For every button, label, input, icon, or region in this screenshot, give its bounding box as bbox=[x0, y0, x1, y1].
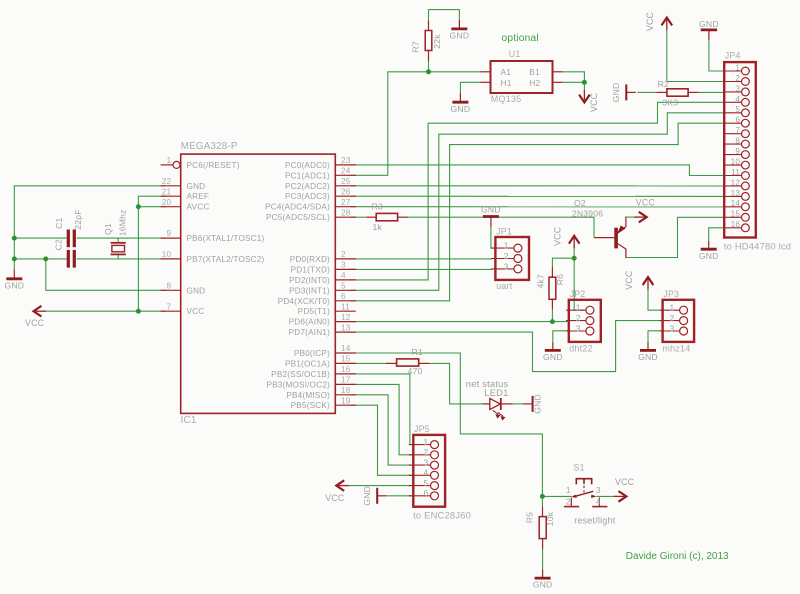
svg-text:23: 23 bbox=[341, 156, 351, 165]
svg-text:R3: R3 bbox=[372, 202, 383, 212]
svg-text:AREF: AREF bbox=[187, 192, 210, 201]
svg-text:PB2(SS/OC1B): PB2(SS/OC1B) bbox=[271, 370, 330, 379]
resistor R7 22k bbox=[411, 20, 443, 60]
wire JP3 pin 3 to GND bbox=[648, 331, 664, 343]
svg-text:mhz14: mhz14 bbox=[662, 344, 690, 354]
svg-text:PD5(T1): PD5(T1) bbox=[298, 307, 330, 316]
svg-text:PB4(MISO): PB4(MISO) bbox=[286, 391, 330, 400]
svg-text:GND: GND bbox=[4, 280, 24, 290]
svg-text:17: 17 bbox=[341, 376, 351, 385]
supply VCC left of JP5 pin5 bbox=[325, 480, 349, 503]
svg-text:PB0(ICP): PB0(ICP) bbox=[294, 349, 330, 358]
svg-text:MQ135: MQ135 bbox=[491, 94, 522, 104]
svg-text:to HD44780 lcd: to HD44780 lcd bbox=[724, 241, 791, 252]
ground below U1 H1 bbox=[459, 93, 461, 102]
svg-text:GND: GND bbox=[699, 251, 719, 261]
svg-text:VCC: VCC bbox=[552, 226, 562, 246]
svg-text:4k7: 4k7 bbox=[535, 274, 545, 288]
svg-text:Q1: Q1 bbox=[103, 223, 113, 235]
svg-text:3: 3 bbox=[596, 486, 601, 495]
svg-text:1: 1 bbox=[423, 437, 428, 447]
wire PD6 to JP2 pin 2 (dht22 data) bbox=[351, 321, 568, 323]
svg-text:10: 10 bbox=[162, 250, 172, 259]
wire PB2 to JP5 pin 1 bbox=[351, 374, 412, 445]
svg-text:10: 10 bbox=[731, 158, 741, 167]
svg-text:VCC: VCC bbox=[187, 307, 205, 316]
svg-text:13: 13 bbox=[731, 189, 741, 198]
svg-text:PD7(AIN1): PD7(AIN1) bbox=[289, 328, 330, 337]
wire R5 top stub bbox=[541, 496, 543, 506]
switch S1 reset/light bbox=[564, 462, 616, 525]
supply VCC above JP3 bbox=[624, 270, 653, 290]
svg-text:15: 15 bbox=[341, 355, 351, 364]
ground left of R2 (rotated) bbox=[625, 84, 627, 100]
svg-text:GND: GND bbox=[450, 31, 470, 41]
ic U1 MQ135 bbox=[480, 49, 562, 104]
svg-text:PD4(XCK/T0): PD4(XCK/T0) bbox=[278, 297, 330, 306]
wire R6 top to VCC node bbox=[552, 258, 574, 267]
supply VCC right of S1 bbox=[614, 477, 635, 502]
svg-text:2: 2 bbox=[566, 498, 571, 507]
svg-text:2: 2 bbox=[669, 313, 674, 323]
wire S1 to R5/PB0 node bbox=[542, 495, 571, 497]
svg-text:PD2(INT0): PD2(INT0) bbox=[289, 276, 330, 285]
svg-text:24: 24 bbox=[341, 167, 351, 176]
resistor R1 470 bbox=[386, 347, 429, 376]
svg-text:VCC: VCC bbox=[636, 198, 656, 208]
svg-text:22pF: 22pF bbox=[73, 209, 83, 229]
svg-text:GND: GND bbox=[699, 19, 719, 29]
wire crystal taps bbox=[117, 238, 119, 243]
svg-text:7: 7 bbox=[167, 302, 172, 311]
svg-text:JP5: JP5 bbox=[414, 424, 430, 434]
wire R7 top to GND bbox=[429, 10, 460, 21]
svg-text:26: 26 bbox=[341, 187, 351, 196]
wire JP1 pin 1 to GND bbox=[491, 227, 492, 248]
svg-text:MEGA328-P: MEGA328-P bbox=[181, 141, 238, 152]
wire GND to JP4 pin 1 bbox=[709, 40, 724, 71]
wire PB4 to JP5 pin 3 bbox=[351, 395, 412, 465]
supply VCC right of Q2 emitter bbox=[634, 198, 655, 223]
svg-text:GND: GND bbox=[543, 352, 563, 362]
wire R7 bottom stub net bbox=[428, 61, 430, 72]
junction VCC row7 bbox=[136, 309, 141, 314]
ground below R5 bbox=[542, 570, 544, 578]
wire PB1 to R1 bbox=[351, 362, 386, 364]
svg-text:1: 1 bbox=[735, 63, 740, 72]
junction PB0/S1/R5 bbox=[540, 494, 545, 499]
svg-text:1k: 1k bbox=[373, 222, 383, 232]
wire Q2 collector to JP4 pin 15 bbox=[626, 217, 724, 257]
svg-text:GND: GND bbox=[481, 204, 501, 214]
wire PD0 to JP1 pin 2 bbox=[351, 258, 492, 260]
svg-text:12: 12 bbox=[341, 313, 351, 322]
svg-text:7: 7 bbox=[735, 126, 740, 135]
svg-text:470: 470 bbox=[408, 366, 423, 376]
connector JP4 to HD44780 lcd bbox=[724, 50, 791, 251]
svg-text:VCC: VCC bbox=[25, 318, 45, 328]
wire S1 pin 3 to VCC bbox=[596, 495, 617, 497]
svg-text:2: 2 bbox=[735, 74, 740, 83]
svg-text:2: 2 bbox=[576, 313, 581, 323]
svg-text:6: 6 bbox=[423, 488, 428, 498]
ground left rail bbox=[13, 270, 15, 279]
svg-text:uart: uart bbox=[496, 281, 513, 291]
svg-text:PB7(XTAL2/TOSC2): PB7(XTAL2/TOSC2) bbox=[187, 255, 265, 264]
svg-text:GND: GND bbox=[362, 486, 372, 506]
svg-text:A1: A1 bbox=[501, 67, 512, 77]
capacitor C1 22pF bbox=[54, 209, 83, 247]
svg-text:R7: R7 bbox=[411, 41, 421, 52]
svg-text:PB5(SCK): PB5(SCK) bbox=[291, 401, 330, 410]
wire GND symbol stub left bbox=[13, 259, 15, 270]
svg-text:8: 8 bbox=[167, 282, 172, 291]
svg-text:19: 19 bbox=[341, 396, 351, 405]
svg-text:PC6(/RESET): PC6(/RESET) bbox=[187, 161, 240, 170]
svg-text:GND: GND bbox=[532, 394, 542, 414]
wire PC4 to JP4 pin 14 bbox=[351, 206, 724, 208]
svg-text:PC3(ADC3): PC3(ADC3) bbox=[285, 192, 330, 201]
wire PD3 to JP4 pin 5 bbox=[351, 113, 724, 290]
junction GND rail row9 bbox=[12, 236, 17, 241]
svg-text:dht22: dht22 bbox=[569, 344, 593, 354]
ground below JP4 pin16 bbox=[708, 241, 710, 249]
wire U1-B1/H2 to VCC bbox=[563, 72, 585, 83]
svg-text:R6: R6 bbox=[555, 274, 565, 285]
svg-text:VCC: VCC bbox=[624, 270, 634, 290]
svg-text:4: 4 bbox=[735, 95, 740, 104]
svg-text:reset/light: reset/light bbox=[574, 516, 616, 526]
junction R6 top VCC bbox=[572, 256, 577, 261]
wire LED1 cathode to GND bbox=[512, 403, 524, 405]
svg-text:2N3906: 2N3906 bbox=[572, 208, 603, 218]
ground below JP3 pin3 bbox=[647, 342, 649, 350]
svg-text:3: 3 bbox=[669, 323, 674, 333]
wire VCC to JP3 pin 1 bbox=[648, 289, 664, 310]
svg-text:16: 16 bbox=[341, 365, 351, 374]
junction R7/A1 bbox=[426, 69, 431, 74]
wire PD1 to JP1 pin 3 bbox=[351, 268, 492, 270]
svg-text:3: 3 bbox=[341, 261, 346, 270]
svg-text:15: 15 bbox=[731, 210, 741, 219]
wire JP4 pin 16 to GND bbox=[709, 228, 725, 241]
supply VCC arrow top (JP4 pin2) bbox=[645, 11, 672, 31]
junction pin8 GND bbox=[43, 256, 48, 261]
svg-text:GND: GND bbox=[187, 286, 206, 295]
svg-text:27: 27 bbox=[341, 198, 351, 207]
resistor R5 10k bbox=[525, 507, 555, 549]
svg-text:U1: U1 bbox=[509, 49, 521, 59]
wire pin8 GND to rail bbox=[46, 259, 166, 290]
svg-text:11: 11 bbox=[341, 302, 350, 311]
wire PB5 to JP5 pin 4 bbox=[351, 405, 412, 475]
svg-text:GND: GND bbox=[451, 104, 471, 114]
svg-text:18: 18 bbox=[341, 386, 351, 395]
svg-text:5: 5 bbox=[735, 105, 740, 114]
svg-text:2: 2 bbox=[341, 250, 346, 259]
svg-text:R5: R5 bbox=[525, 512, 535, 523]
connector JP3 mhz14 bbox=[660, 289, 694, 354]
svg-text:PD0(RXD): PD0(RXD) bbox=[290, 255, 330, 264]
svg-text:1: 1 bbox=[576, 303, 581, 313]
ground above JP1 pin1 (inverted) bbox=[490, 217, 492, 228]
svg-text:8: 8 bbox=[735, 137, 740, 146]
supply VCC above JP2 bbox=[552, 226, 579, 248]
svg-text:14: 14 bbox=[731, 199, 741, 208]
ground above R7 bbox=[458, 20, 460, 29]
wire R5 bottom to GND bbox=[542, 549, 544, 570]
wire PD4 to JP4 pin 6 bbox=[351, 123, 724, 301]
svg-text:LED1: LED1 bbox=[484, 387, 508, 398]
svg-text:9: 9 bbox=[167, 229, 172, 238]
svg-text:JP3: JP3 bbox=[663, 289, 679, 299]
svg-text:PC5(ADC5/SCL): PC5(ADC5/SCL) bbox=[266, 213, 330, 222]
svg-text:B1: B1 bbox=[529, 67, 540, 77]
wire C1 row (XTAL1) bbox=[14, 237, 66, 239]
connector JP5 to ENC28J60 bbox=[409, 424, 471, 521]
wire PC3 to JP4 pin 13 bbox=[351, 195, 724, 197]
svg-text:AVCC: AVCC bbox=[187, 203, 210, 212]
svg-text:PC2(ADC2): PC2(ADC2) bbox=[285, 182, 330, 191]
wire Q2 emitter to VCC bbox=[626, 216, 638, 218]
wire R6 bottom stub bbox=[551, 310, 553, 322]
supply VCC left arrow bbox=[25, 306, 46, 328]
svg-text:to ENC28J60: to ENC28J60 bbox=[413, 510, 471, 521]
resistor R6 4k7 bbox=[535, 267, 565, 309]
wire PB3 to JP5 pin 2 bbox=[351, 384, 412, 454]
svg-text:C1: C1 bbox=[54, 217, 64, 228]
svg-text:GND: GND bbox=[611, 83, 621, 103]
svg-text:JP4: JP4 bbox=[725, 50, 741, 60]
supply VCC below U1 (arrow down) bbox=[579, 90, 599, 112]
svg-text:GND: GND bbox=[638, 352, 658, 362]
svg-text:JP1: JP1 bbox=[496, 226, 512, 236]
wire VCC to JP4 pin 2 bbox=[667, 30, 724, 82]
svg-text:JP2: JP2 bbox=[570, 289, 586, 299]
wire PD7 to JP3 pin 2 (mhz14) bbox=[351, 321, 664, 372]
ground below JP2 pin3 bbox=[552, 342, 554, 350]
wire MQ135-A1/R7/PC1 net (ADC1) bbox=[351, 72, 481, 176]
svg-text:S1: S1 bbox=[574, 462, 585, 472]
svg-text:3: 3 bbox=[423, 458, 428, 468]
svg-text:13: 13 bbox=[341, 323, 351, 332]
svg-text:PD1(TXD): PD1(TXD) bbox=[291, 265, 330, 274]
svg-text:PC0(ADC0): PC0(ADC0) bbox=[285, 161, 330, 170]
junction U1 B1/H2/VCC bbox=[582, 80, 587, 85]
svg-text:20: 20 bbox=[162, 198, 172, 207]
svg-text:14: 14 bbox=[341, 344, 351, 353]
svg-text:21: 21 bbox=[162, 187, 172, 196]
capacitor C2 bbox=[54, 239, 75, 268]
svg-text:VCC: VCC bbox=[615, 477, 635, 487]
resistor R2 3k3 bbox=[657, 79, 699, 108]
svg-text:10k: 10k bbox=[545, 511, 555, 526]
wire PD2 to JP4 pin 4 bbox=[351, 102, 724, 280]
svg-text:3: 3 bbox=[504, 261, 509, 271]
svg-text:4: 4 bbox=[341, 271, 346, 280]
wire C2 row (XTAL2) bbox=[14, 258, 67, 260]
svg-text:1: 1 bbox=[167, 156, 172, 165]
crystal Q1 16Mhz bbox=[103, 209, 127, 254]
svg-text:6: 6 bbox=[735, 116, 740, 125]
svg-text:1: 1 bbox=[566, 486, 571, 495]
wire R1 to LED1 anode bbox=[429, 363, 482, 404]
svg-text:6: 6 bbox=[341, 292, 346, 301]
svg-text:16: 16 bbox=[731, 220, 741, 229]
svg-text:H2: H2 bbox=[529, 78, 540, 88]
svg-text:Davide Gironi (c), 2013: Davide Gironi (c), 2013 bbox=[626, 551, 729, 562]
wire VCC to JP2 pin 1 bbox=[574, 248, 584, 311]
svg-text:3: 3 bbox=[576, 323, 581, 333]
svg-text:2: 2 bbox=[423, 447, 428, 457]
svg-text:IC1: IC1 bbox=[181, 415, 197, 426]
junction GND rail row10 bbox=[12, 256, 17, 261]
ic U1 MEGA328-P body bbox=[181, 141, 336, 426]
svg-text:C2: C2 bbox=[54, 239, 64, 250]
svg-text:22k: 22k bbox=[432, 34, 442, 49]
svg-text:3K3: 3K3 bbox=[662, 98, 678, 108]
svg-text:4: 4 bbox=[596, 498, 601, 507]
svg-text:9: 9 bbox=[735, 147, 740, 156]
svg-text:PC1(ADC1): PC1(ADC1) bbox=[285, 171, 330, 180]
svg-text:H1: H1 bbox=[501, 78, 512, 88]
ground left of JP5 pin6 (rotated) bbox=[376, 488, 378, 504]
svg-text:2: 2 bbox=[504, 251, 509, 261]
svg-text:22: 22 bbox=[162, 177, 172, 186]
svg-text:R1: R1 bbox=[412, 347, 423, 357]
resistor R3 1k bbox=[366, 202, 407, 232]
wire VCC to JP5 pin 5 bbox=[347, 485, 413, 487]
ground top (JP4 pin1) bbox=[699, 19, 719, 41]
wire AREF/AVCC/VCC rail bbox=[138, 196, 165, 311]
wire GND to JP5 pin 6 bbox=[387, 495, 412, 497]
junction AVCC bbox=[136, 204, 141, 209]
wire PB0 to S1 node bbox=[351, 353, 543, 496]
wire U1-H1 to GND bbox=[460, 82, 480, 93]
wire PC5 to R3 to Q2 base bbox=[351, 216, 367, 218]
svg-text:PD3(INT1): PD3(INT1) bbox=[289, 286, 330, 295]
svg-text:PD6(AIN0): PD6(AIN0) bbox=[289, 318, 330, 327]
svg-text:28: 28 bbox=[341, 208, 351, 217]
ic pins right side bbox=[265, 156, 356, 410]
wire R2 right to JP4 pin 3 bbox=[698, 91, 724, 93]
svg-text:25: 25 bbox=[341, 177, 351, 186]
ic pins left side bbox=[161, 156, 265, 316]
wire VCC arrow to rail bbox=[44, 310, 138, 312]
ground right of LED1 (rotated) bbox=[532, 396, 534, 412]
wire GND net left rail (pin22/C1/C2) bbox=[14, 186, 165, 259]
connector JP1 uart bbox=[491, 226, 529, 291]
svg-text:PB1(OC1A): PB1(OC1A) bbox=[285, 359, 330, 368]
wire PC2 to JP4 pin 12 bbox=[351, 185, 724, 187]
svg-text:VCC: VCC bbox=[325, 493, 345, 503]
svg-text:1: 1 bbox=[504, 241, 509, 251]
svg-text:1: 1 bbox=[669, 303, 674, 313]
wire GND to R2 left bbox=[638, 91, 658, 93]
led LED1 net status bbox=[466, 378, 513, 420]
svg-text:optional: optional bbox=[502, 33, 539, 44]
svg-text:PB3(MOSI/OC2): PB3(MOSI/OC2) bbox=[266, 380, 330, 389]
svg-text:R2: R2 bbox=[658, 79, 669, 89]
svg-text:VCC: VCC bbox=[645, 11, 655, 31]
connector JP2 dht22 bbox=[566, 289, 601, 353]
svg-text:VCC: VCC bbox=[589, 92, 599, 112]
svg-text:12: 12 bbox=[731, 178, 741, 187]
svg-text:4: 4 bbox=[423, 468, 428, 478]
svg-text:PB6(XTAL1/TOSC1): PB6(XTAL1/TOSC1) bbox=[187, 234, 265, 243]
wire JP2 pin 3 to GND bbox=[553, 331, 568, 343]
svg-text:PC4(ADC4/SDA): PC4(ADC4/SDA) bbox=[265, 203, 330, 212]
svg-text:GND: GND bbox=[533, 580, 553, 590]
svg-text:3: 3 bbox=[735, 84, 740, 93]
transistor Q2 2N3906 bbox=[572, 198, 626, 258]
svg-text:11: 11 bbox=[731, 168, 740, 177]
junction R6 bottom / JP2 pin2 bbox=[550, 319, 555, 324]
svg-text:5: 5 bbox=[423, 478, 428, 488]
wire PC0 to JP4 pin 11 bbox=[351, 165, 724, 176]
svg-text:GND: GND bbox=[187, 182, 206, 191]
svg-text:Q2: Q2 bbox=[574, 198, 586, 208]
svg-text:16Mhz: 16Mhz bbox=[117, 209, 127, 236]
svg-text:5: 5 bbox=[341, 282, 346, 291]
